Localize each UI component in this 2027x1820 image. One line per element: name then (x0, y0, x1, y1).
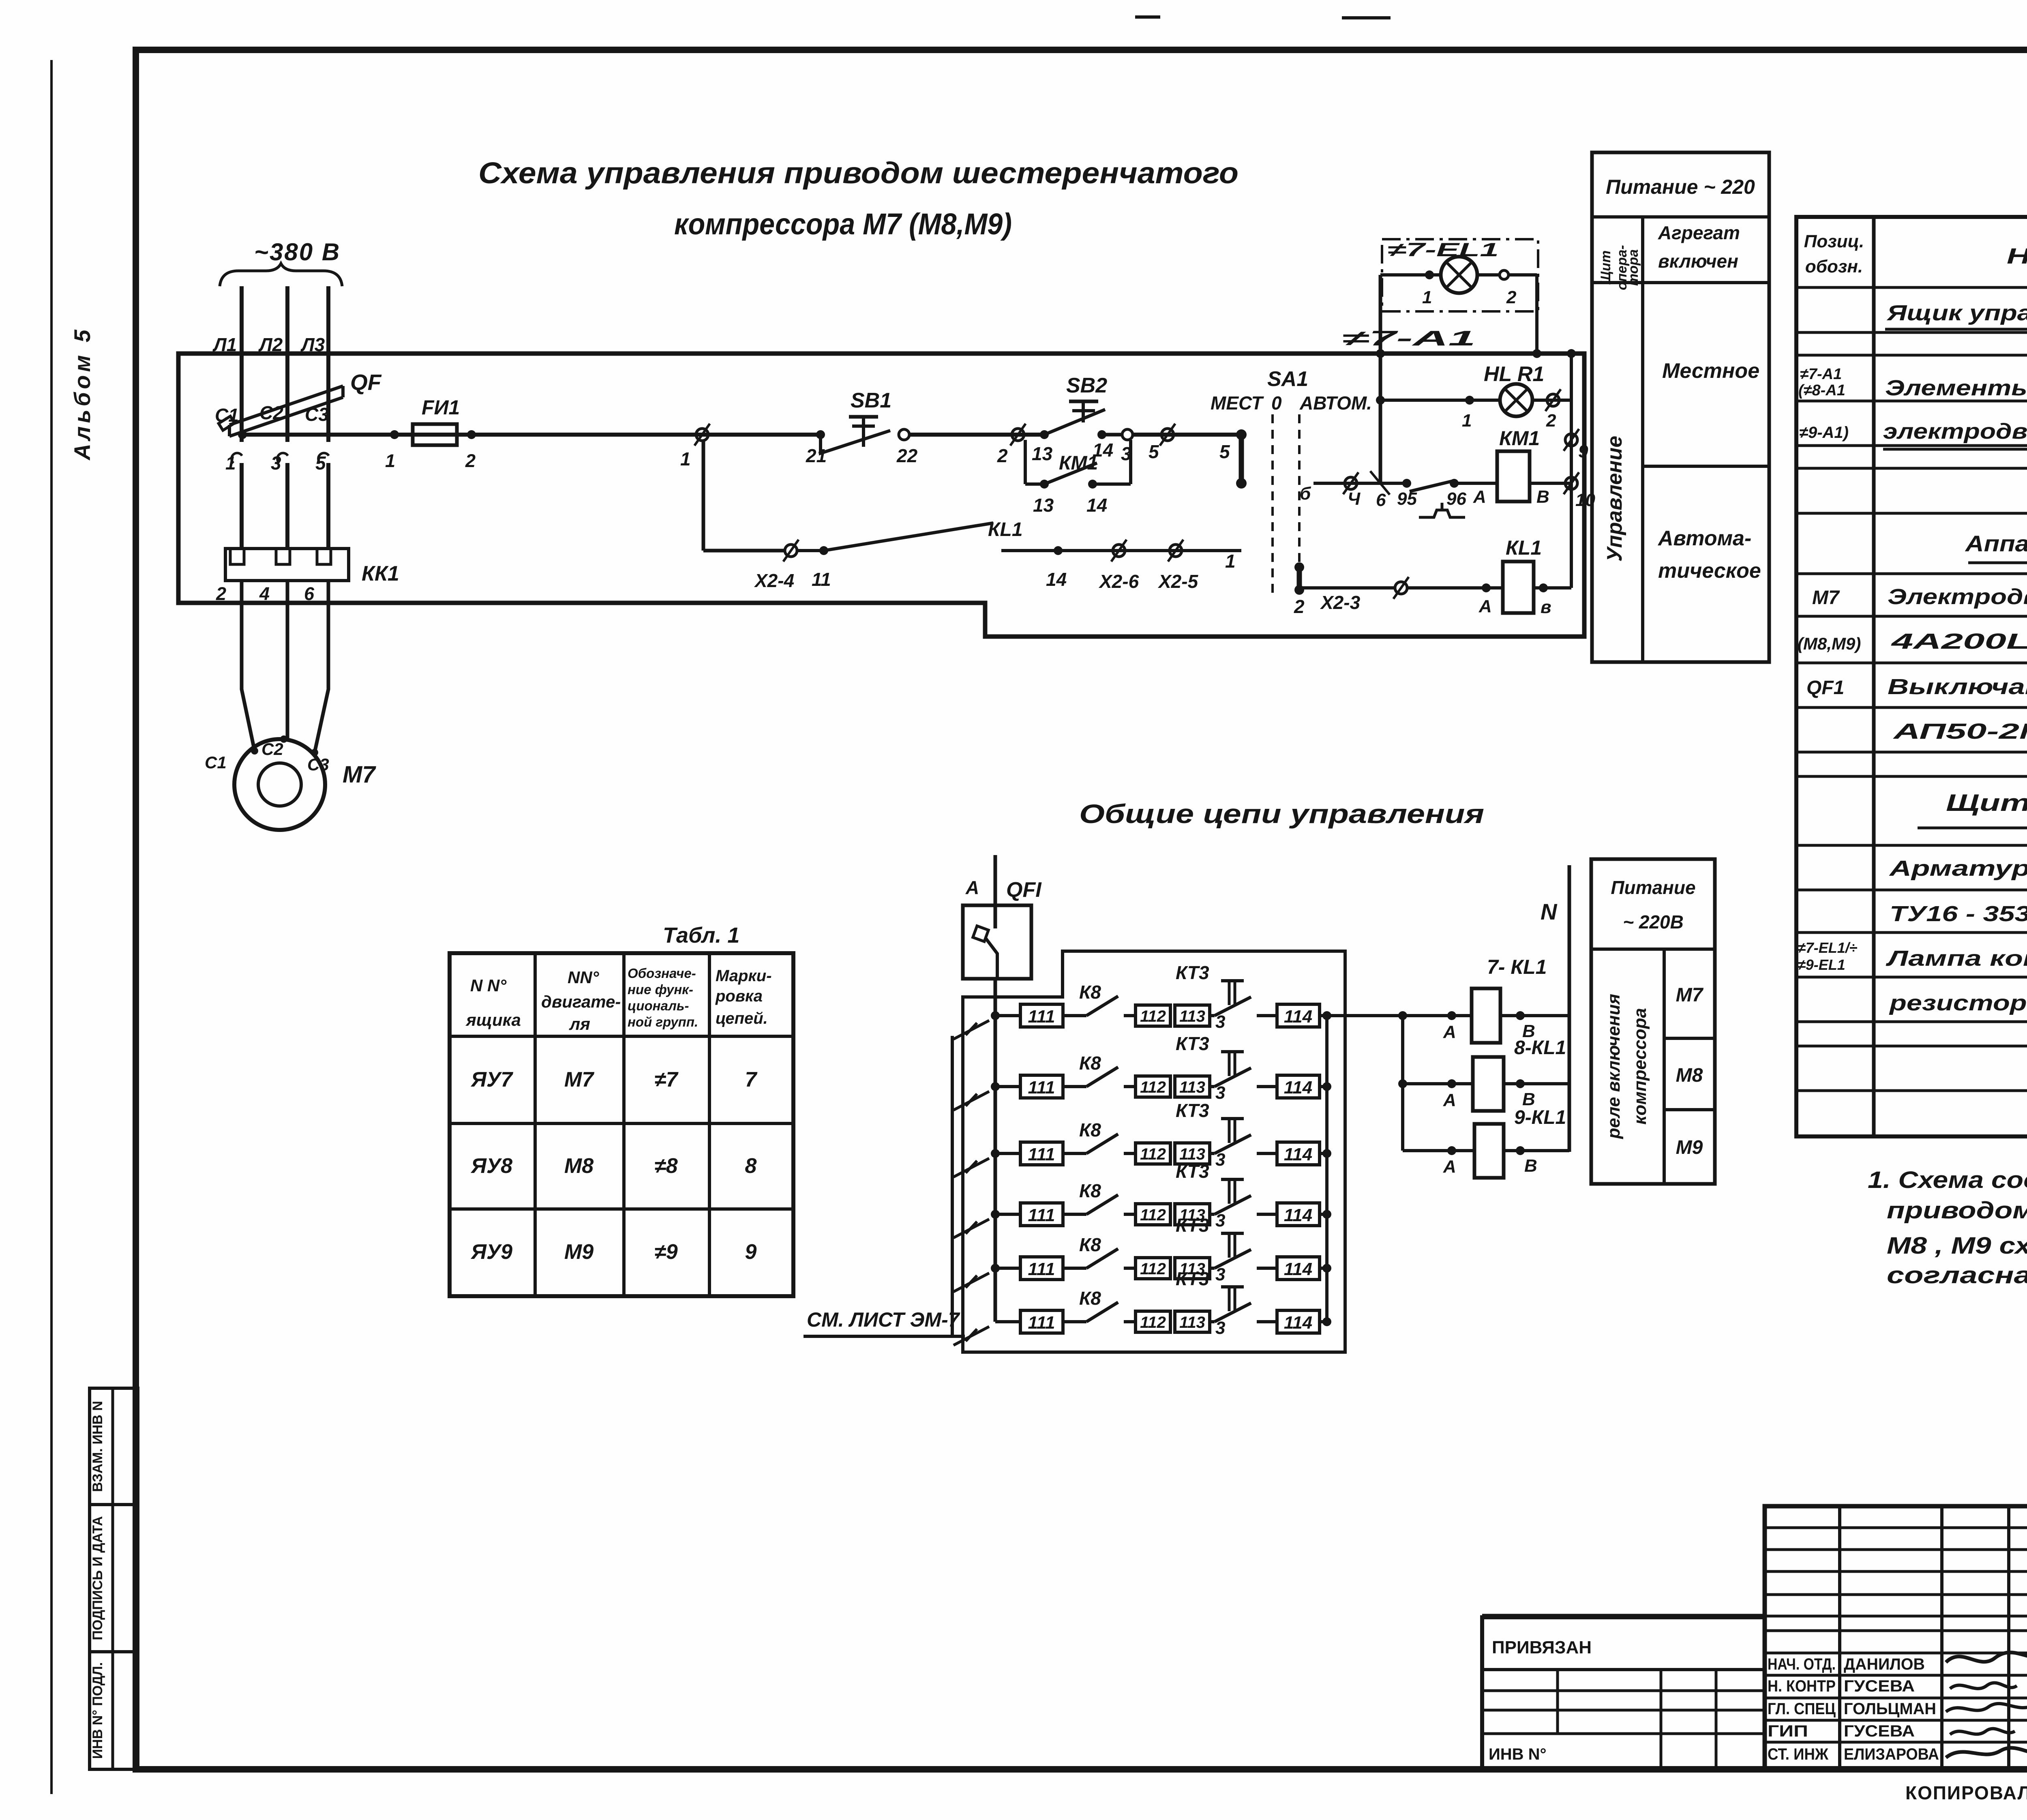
svg-text:Управление: Управление (1603, 436, 1626, 562)
svg-text:К8: К8 (1079, 1119, 1101, 1140)
svg-text:КТ3: КТ3 (1176, 962, 1209, 983)
svg-text:113: 113 (1179, 1314, 1205, 1331)
svg-text:М9: М9 (1676, 1137, 1703, 1158)
svg-text:Щит: Щит (1598, 251, 1613, 285)
svg-text:СМ. ЛИСТ ЭМ-7: СМ. ЛИСТ ЭМ-7 (807, 1308, 960, 1331)
svg-text:14: 14 (1093, 439, 1113, 461)
svg-text:Марки-: Марки- (716, 967, 772, 985)
svg-text:1: 1 (1462, 411, 1472, 431)
svg-text:обозн.: обозн. (1805, 257, 1863, 277)
svg-text:МЕСТ: МЕСТ (1211, 392, 1264, 414)
svg-text:NN°: NN° (568, 968, 600, 987)
svg-text:КК1: КК1 (362, 562, 399, 585)
svg-text:С1: С1 (205, 753, 227, 772)
svg-text:тора: тора (1626, 249, 1641, 286)
svg-text:Арматура АМЕ 323221У2 ~220В: Арматура АМЕ 323221У2 ~220В (1888, 856, 2027, 881)
svg-text:114: 114 (1284, 1007, 1312, 1027)
svg-text:М7: М7 (1812, 587, 1840, 609)
svg-text:С2: С2 (261, 740, 283, 759)
svg-text:Н. КОНТР: Н. КОНТР (1768, 1677, 1836, 1695)
svg-text:9: 9 (745, 1240, 757, 1264)
svg-text:К8: К8 (1079, 1180, 1101, 1201)
svg-text:Щит оператора: Щит оператора (1946, 790, 2027, 816)
svg-text:112: 112 (1140, 1008, 1166, 1025)
svg-text:~ 220В: ~ 220В (1623, 911, 1684, 933)
svg-text:112: 112 (1140, 1145, 1166, 1163)
svg-text:1: 1 (680, 448, 691, 469)
svg-text:111: 111 (1028, 1259, 1055, 1279)
svg-text:ПРИВЯЗАН: ПРИВЯЗАН (1492, 1638, 1592, 1657)
svg-text:ВЗАМ. ИНВ N: ВЗАМ. ИНВ N (90, 1401, 105, 1492)
svg-text:≠7: ≠7 (654, 1068, 679, 1091)
svg-text:1: 1 (1422, 287, 1432, 307)
svg-text:КОПИРОВАЛ: КОРШУНОВА: КОПИРОВАЛ: КОРШУНОВА (1905, 1782, 2027, 1803)
svg-text:Выключатель автоматический: Выключатель автоматический (1888, 675, 2027, 699)
svg-text:К8: К8 (1079, 1053, 1101, 1074)
svg-text:Местное: Местное (1662, 359, 1759, 383)
svg-text:N N°: N N° (470, 976, 507, 995)
svg-text:7- КL1: 7- КL1 (1487, 956, 1547, 978)
svg-text:2: 2 (1294, 596, 1305, 617)
svg-text:≠7-А1: ≠7-А1 (1342, 327, 1476, 350)
svg-text:М7: М7 (343, 761, 376, 788)
svg-text:компрессора: компрессора (1630, 1008, 1650, 1125)
svg-text:QF1: QF1 (1806, 677, 1844, 699)
svg-text:КТ3: КТ3 (1176, 1161, 1209, 1182)
svg-text:СТ. ИНЖ: СТ. ИНЖ (1768, 1745, 1829, 1763)
svg-text:С3: С3 (307, 755, 329, 774)
svg-text:Питание: Питание (1611, 877, 1695, 898)
svg-text:8: 8 (745, 1154, 757, 1178)
svg-text:113: 113 (1179, 1078, 1205, 1096)
svg-text:В: В (1522, 1089, 1535, 1109)
svg-text:Электродвигатель: Электродвигатель (1888, 585, 2027, 609)
svg-text:Наименование: Наименование (2007, 244, 2027, 268)
svg-text:5: 5 (1148, 441, 1159, 462)
svg-text:≠9-А1): ≠9-А1) (1799, 424, 1849, 442)
svg-text:1: 1 (1225, 551, 1236, 572)
svg-text:0: 0 (1271, 392, 1282, 414)
svg-text:КТ3: КТ3 (1176, 1215, 1209, 1236)
svg-text:3: 3 (1215, 1150, 1225, 1170)
svg-text:3: 3 (271, 452, 281, 474)
svg-text:ЯУ7: ЯУ7 (470, 1068, 513, 1091)
svg-text:≠8: ≠8 (654, 1154, 678, 1178)
svg-text:Лампа коммутаторная КМ24-90: Лампа коммутаторная КМ24-90 (1886, 946, 2027, 971)
svg-text:М9: М9 (564, 1240, 594, 1264)
svg-text:резистор ПЭВ-25 ТУ16 - 353.: резистор ПЭВ-25 ТУ16 - 353. 582-76 (1888, 991, 2027, 1015)
svg-text:≠7-А1: ≠7-А1 (1800, 366, 1842, 383)
svg-text:SА1: SА1 (1267, 367, 1308, 391)
svg-text:ИНВ N° ПОДЛ.: ИНВ N° ПОДЛ. (90, 1662, 105, 1759)
svg-text:ГЛ. СПЕЦ: ГЛ. СПЕЦ (1768, 1700, 1836, 1718)
svg-text:АП50-2МТ: АП50-2МТ (1892, 719, 2027, 744)
svg-text:≠9: ≠9 (654, 1240, 678, 1264)
svg-text:циональ-: циональ- (628, 998, 689, 1013)
svg-text:3: 3 (1215, 1211, 1225, 1230)
svg-text:ЕЛИЗАРОВА: ЕЛИЗАРОВА (1844, 1745, 1939, 1763)
svg-text:112: 112 (1140, 1078, 1166, 1096)
svg-text:ГОЛЬЦМАН: ГОЛЬЦМАН (1844, 1700, 1936, 1718)
svg-text:А: А (1473, 487, 1486, 507)
svg-text:Табл. 1: Табл. 1 (663, 923, 739, 948)
svg-text:112: 112 (1140, 1314, 1166, 1331)
svg-text:М8: М8 (564, 1154, 594, 1178)
svg-text:ящика: ящика (465, 1010, 521, 1029)
svg-text:С1: С1 (215, 405, 239, 426)
svg-text:4: 4 (259, 583, 270, 604)
svg-text:Общие цепи управления: Общие цепи управления (1079, 799, 1484, 829)
svg-text:1: 1 (385, 450, 395, 471)
svg-text:ДАНИЛОВ: ДАНИЛОВ (1844, 1655, 1925, 1673)
svg-text:двигате-: двигате- (541, 992, 621, 1011)
svg-text:SВ2: SВ2 (1066, 374, 1107, 397)
svg-text:Х2-6: Х2-6 (1098, 571, 1139, 592)
svg-text:1. Схема составлена для у: 1. Схема составлена для управления (1868, 1167, 2027, 1193)
svg-text:ЯУ8: ЯУ8 (470, 1154, 512, 1178)
svg-text:М8 , М9 схема аналогична с: М8 , М9 схема аналогична с изменениями (1887, 1233, 2027, 1259)
svg-text:В: В (1524, 1156, 1537, 1176)
svg-text:Ящик управления Я5141-3974УХЛ: Ящик управления Я5141-3974УХЛ4 (1886, 301, 2027, 325)
svg-text:ПОДПИСЬ И ДАТА: ПОДПИСЬ И ДАТА (90, 1516, 105, 1640)
svg-text:5: 5 (315, 452, 326, 474)
svg-text:111: 111 (1028, 1313, 1055, 1333)
svg-text:N: N (1541, 899, 1558, 924)
svg-text:(М8,М9): (М8,М9) (1798, 634, 1861, 653)
svg-text:ТУ16 - 353.582-76 в комплекте: ТУ16 - 353.582-76 в комплекте : (1890, 902, 2027, 926)
svg-text:А: А (1443, 1157, 1456, 1177)
svg-text:реле включения: реле включения (1604, 994, 1624, 1139)
svg-text:ля: ля (569, 1014, 590, 1033)
svg-text:Альбом 5: Альбом 5 (69, 326, 95, 461)
svg-text:КТ3: КТ3 (1176, 1268, 1209, 1289)
svg-text:ГИП: ГИП (1768, 1722, 1808, 1740)
svg-text:ИНВ N°: ИНВ N° (1489, 1745, 1547, 1763)
svg-text:6: 6 (304, 583, 315, 604)
svg-text:13: 13 (1033, 495, 1054, 516)
svg-text:б: б (1300, 484, 1311, 504)
svg-text:Х2-3: Х2-3 (1320, 592, 1361, 613)
svg-text:Обозначе-: Обозначе- (628, 966, 696, 981)
svg-text:К8: К8 (1079, 982, 1101, 1003)
svg-text:М8: М8 (1676, 1065, 1703, 1086)
svg-text:113: 113 (1179, 1008, 1205, 1025)
svg-text:ГУСЕВА: ГУСЕВА (1844, 1722, 1915, 1740)
svg-text:ной групп.: ной групп. (628, 1014, 698, 1029)
svg-text:QF: QF (350, 370, 382, 395)
svg-text:Автома-: Автома- (1657, 527, 1751, 550)
svg-text:3: 3 (1215, 1012, 1225, 1032)
svg-text:К8: К8 (1079, 1288, 1101, 1309)
svg-text:Аппаратура по месту: Аппаратура по месту (1965, 531, 2027, 556)
svg-text:КL1: КL1 (1506, 536, 1542, 559)
svg-text:114: 114 (1284, 1078, 1312, 1098)
svg-text:~380 В: ~380 В (254, 238, 341, 266)
svg-text:9: 9 (1578, 442, 1588, 461)
svg-text:КТ3: КТ3 (1176, 1033, 1209, 1054)
svg-text:8-КL1: 8-КL1 (1514, 1037, 1566, 1059)
svg-text:НАЧ. ОТД.: НАЧ. ОТД. (1768, 1655, 1836, 1673)
svg-text:тическое: тическое (1658, 559, 1761, 583)
svg-text:согласна таблице 1.: согласна таблице 1. (1887, 1262, 2027, 1288)
svg-text:Х2-4: Х2-4 (754, 570, 794, 591)
svg-text:Агрегат: Агрегат (1658, 222, 1740, 243)
svg-text:≠7-ЕL1: ≠7-ЕL1 (1387, 239, 1499, 260)
svg-text:включен: включен (1658, 251, 1738, 272)
svg-text:14: 14 (1086, 495, 1107, 516)
svg-text:2: 2 (1546, 411, 1556, 431)
svg-text:SВ1: SВ1 (851, 389, 891, 412)
svg-text:КМ1: КМ1 (1499, 427, 1540, 450)
svg-text:2: 2 (465, 450, 476, 471)
svg-text:4А200L4: 4А200L4 (1891, 629, 2027, 654)
svg-text:ние функ-: ние функ- (628, 982, 693, 997)
svg-text:5: 5 (1219, 441, 1230, 462)
svg-text:9-КL1: 9-КL1 (1514, 1107, 1566, 1128)
svg-text:А: А (965, 877, 979, 898)
svg-text:2: 2 (216, 583, 226, 604)
svg-text:в: в (1541, 597, 1551, 617)
svg-text:111: 111 (1028, 1145, 1055, 1164)
svg-text:Схема управления приводом ш: Схема управления приводом шестеренчатого (478, 156, 1238, 190)
svg-text:≠7-ЕL1/÷: ≠7-ЕL1/÷ (1798, 939, 1858, 956)
svg-text:Элементы управления: Элементы управления (1885, 376, 2027, 400)
svg-text:FИ1: FИ1 (422, 396, 460, 419)
svg-text:М7: М7 (1676, 984, 1704, 1006)
svg-text:2: 2 (1506, 287, 1517, 307)
svg-text:2: 2 (997, 445, 1008, 466)
svg-text:112: 112 (1140, 1206, 1166, 1224)
svg-text:13: 13 (1032, 443, 1053, 464)
svg-text:21: 21 (806, 445, 827, 466)
svg-text:С3: С3 (305, 404, 329, 425)
svg-text:ГУСЕВА: ГУСЕВА (1844, 1677, 1915, 1695)
svg-text:96: 96 (1446, 489, 1466, 509)
svg-text:22: 22 (896, 445, 918, 466)
svg-text:приводом М7, для управления: приводом М7, для управления приводом (1887, 1197, 2027, 1224)
svg-text:11: 11 (812, 569, 831, 590)
svg-text:КL1: КL1 (988, 519, 1023, 540)
svg-text:(≠8-А1: (≠8-А1 (1798, 382, 1845, 399)
svg-text:ЯУ9: ЯУ9 (470, 1240, 512, 1264)
svg-text:114: 114 (1284, 1145, 1312, 1164)
svg-text:цепей.: цепей. (716, 1010, 768, 1027)
svg-text:111: 111 (1028, 1205, 1055, 1225)
svg-text:А: А (1443, 1022, 1456, 1042)
svg-text:Питание ~ 220: Питание ~ 220 (1606, 176, 1755, 198)
svg-text:М7: М7 (564, 1068, 594, 1091)
svg-text:14: 14 (1046, 569, 1067, 590)
svg-text:QFI: QFI (1006, 878, 1042, 902)
svg-text:Ч: Ч (1348, 489, 1361, 509)
svg-text:электродвигателями М7(М8, М9): электродвигателями М7(М8, М9) (1883, 419, 2027, 444)
svg-text:112: 112 (1140, 1260, 1166, 1278)
svg-text:А: А (1443, 1090, 1456, 1110)
svg-text:111: 111 (1028, 1078, 1055, 1098)
svg-text:3: 3 (1215, 1083, 1225, 1103)
svg-text:В: В (1536, 487, 1549, 507)
svg-text:111: 111 (1028, 1007, 1055, 1027)
svg-text:ровка: ровка (715, 987, 763, 1005)
svg-text:3: 3 (1215, 1265, 1225, 1284)
svg-text:3: 3 (1215, 1318, 1225, 1338)
svg-text:Позиц.: Позиц. (1804, 232, 1864, 251)
svg-text:114: 114 (1284, 1313, 1312, 1333)
svg-text:≠9-ЕL1: ≠9-ЕL1 (1798, 956, 1845, 973)
svg-text:А: А (1478, 596, 1492, 616)
svg-text:компрессора М7 (М8,М9): компрессора М7 (М8,М9) (674, 207, 1012, 241)
svg-text:6: 6 (1376, 490, 1386, 510)
svg-text:114: 114 (1284, 1205, 1312, 1225)
svg-text:Х2-5: Х2-5 (1157, 571, 1199, 592)
svg-text:КТ3: КТ3 (1176, 1100, 1209, 1121)
svg-text:7: 7 (745, 1068, 758, 1091)
svg-text:АВТОМ.: АВТОМ. (1299, 392, 1372, 414)
svg-text:С2: С2 (259, 402, 283, 423)
svg-text:К8: К8 (1079, 1234, 1101, 1255)
svg-text:114: 114 (1284, 1259, 1312, 1279)
svg-text:1: 1 (225, 452, 236, 474)
